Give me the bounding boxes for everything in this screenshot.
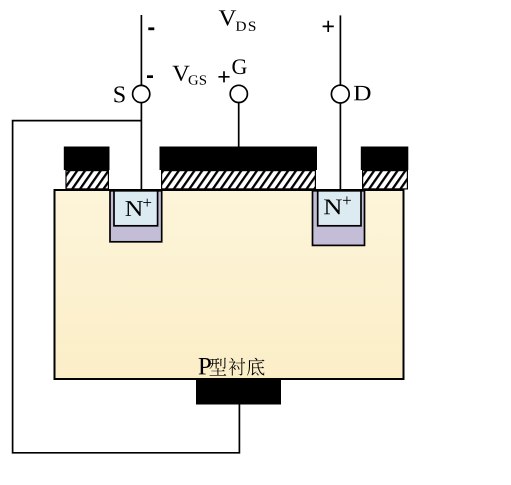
oxide layer right (hatched)	[363, 171, 408, 189]
N+ source diffusion outer (left purple)	[110, 191, 162, 242]
wire substrate loop	[13, 121, 240, 453]
label P (substrate text)	[199, 358, 211, 374]
label D	[354, 86, 371, 100]
wire S top	[140, 15, 142, 85]
plus top	[323, 21, 334, 32]
N+ drain region (right blue)	[318, 191, 361, 226]
source metal (left black bar)	[64, 147, 110, 171]
wire S to N+	[140, 103, 142, 191]
minus mid	[147, 75, 153, 78]
label 衬	[229, 358, 245, 376]
wire G to gate	[238, 103, 240, 148]
N+ label left	[125, 201, 142, 216]
N+ drain diffusion outer (right purple)	[313, 191, 365, 246]
terminal G	[230, 85, 247, 102]
label S	[114, 86, 124, 102]
oxide layer left (hatched)	[66, 171, 108, 189]
label G	[232, 59, 246, 74]
oxide layer gate (hatched)	[162, 171, 316, 189]
N+ label right	[324, 199, 342, 214]
N+ source region (left blue)	[114, 191, 158, 226]
label 底	[247, 358, 265, 376]
minus top	[148, 27, 154, 30]
terminal S	[133, 85, 150, 102]
wire D to N+	[339, 103, 341, 191]
label 型	[209, 358, 226, 376]
wire D top	[339, 15, 341, 85]
drain metal (right black bar)	[361, 147, 409, 171]
gate metal (center black bar)	[160, 147, 318, 171]
P substrate body	[55, 190, 404, 379]
terminal D	[331, 85, 349, 103]
plus mid	[218, 71, 229, 82]
label V_DS	[219, 10, 236, 25]
label V_GS	[172, 66, 189, 81]
substrate contact (bottom black bar)	[196, 379, 281, 405]
